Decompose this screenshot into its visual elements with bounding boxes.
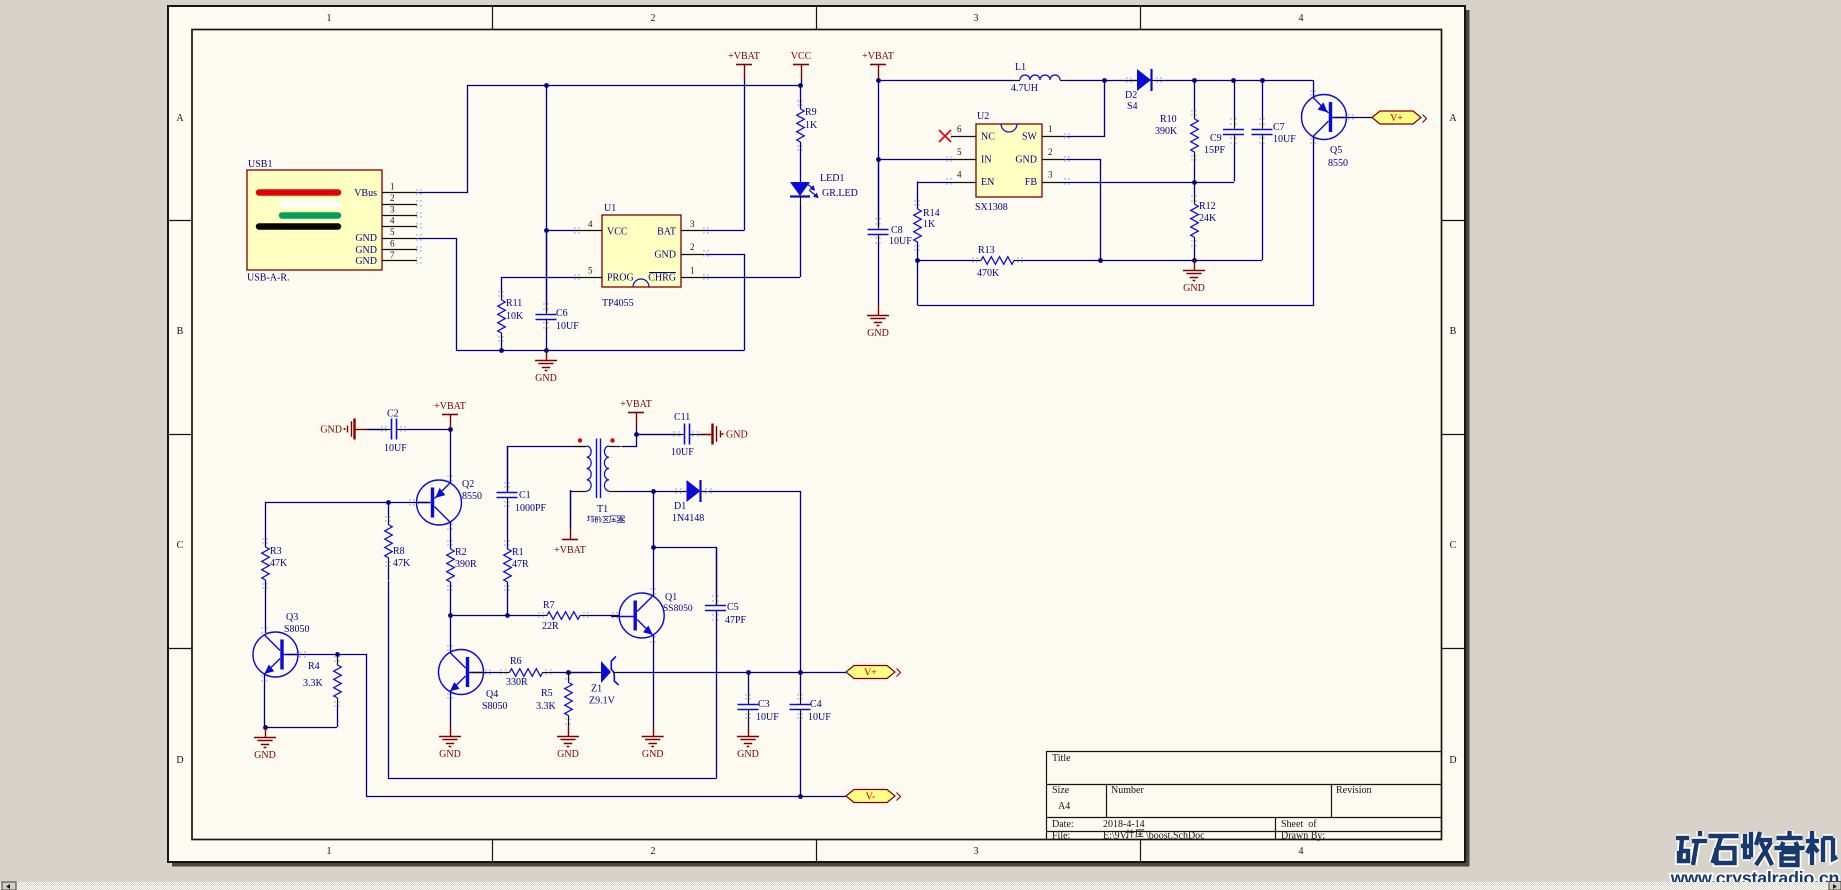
junction R13 left	[915, 258, 920, 263]
svg-text:10UF: 10UF	[889, 236, 912, 247]
junction Q3 base R4	[335, 652, 340, 657]
resistor R3	[265, 547, 267, 549]
svg-text:2: 2	[651, 846, 656, 857]
svg-text:390R: 390R	[455, 559, 477, 570]
svg-text:GND: GND	[1015, 155, 1037, 166]
svg-text:D: D	[1449, 755, 1456, 766]
wire Q1 emitter down to GND	[653, 635, 655, 726]
svg-text:Title: Title	[1052, 753, 1071, 764]
wire U1 GND pin2 to rail	[705, 255, 745, 351]
svg-text:3.3K: 3.3K	[536, 701, 557, 712]
junction C5 branch	[651, 545, 656, 550]
resistor R14	[917, 209, 919, 211]
svg-text:8550: 8550	[462, 491, 482, 502]
svg-text:2: 2	[1048, 147, 1053, 157]
svg-text:3: 3	[390, 205, 395, 215]
svg-text:U1: U1	[604, 203, 616, 214]
svg-text:B: B	[1450, 326, 1457, 337]
svg-text:LED1: LED1	[820, 173, 844, 184]
svg-text:+VBAT: +VBAT	[728, 51, 760, 62]
svg-text:V+: V+	[1390, 113, 1403, 124]
junction C4 top	[798, 670, 803, 675]
U1 pins right	[681, 230, 704, 232]
svg-text:6: 6	[390, 239, 395, 249]
zener diode Z1	[568, 672, 593, 674]
svg-text:5: 5	[588, 266, 593, 276]
wire branch to C5	[654, 548, 717, 606]
svg-text:R6: R6	[510, 656, 522, 667]
USB1 black wire bar	[259, 223, 338, 230]
junction R10 top	[1192, 78, 1197, 83]
wire R1 to R7 row	[507, 582, 509, 615]
transformer T1 core	[596, 439, 598, 499]
junction at 800,85	[798, 83, 803, 88]
svg-text:C7: C7	[1273, 122, 1285, 133]
svg-text:V-: V-	[866, 792, 876, 803]
wire R6 to Z1	[568, 672, 593, 674]
wire R14 to R13 junction	[917, 242, 919, 260]
svg-text:VCC: VCC	[607, 227, 628, 238]
schematic sheet	[168, 6, 1465, 862]
svg-text:R3: R3	[270, 546, 282, 557]
svg-text:+VBAT: +VBAT	[862, 51, 894, 62]
power +VBAT above Q2	[442, 414, 458, 416]
svg-text:2: 2	[651, 13, 656, 24]
resistor R4	[337, 655, 339, 657]
transistor Q2 8550	[417, 480, 462, 525]
connector USB1 body	[247, 170, 382, 270]
svg-text:S4: S4	[1127, 101, 1138, 112]
svg-text:47PF: 47PF	[725, 615, 747, 626]
wire FB row	[1065, 182, 1234, 184]
svg-text:Q5: Q5	[1330, 145, 1342, 156]
wire C1 top to transformer primary	[508, 447, 586, 493]
wire R7 to Q1 base	[611, 616, 619, 618]
svg-text:FB: FB	[1025, 177, 1038, 188]
svg-text:GR.LED: GR.LED	[822, 188, 858, 199]
svg-text:24K: 24K	[1199, 213, 1217, 224]
resistor R11	[501, 277, 503, 291]
svg-text:C1: C1	[519, 490, 531, 501]
svg-text:SW: SW	[1022, 132, 1038, 143]
svg-text:D2: D2	[1125, 90, 1137, 101]
wire primary bottom to +VBAT down	[571, 492, 575, 528]
svg-text:A: A	[176, 113, 184, 124]
svg-text:3: 3	[974, 13, 979, 24]
resistor R10	[1194, 80, 1196, 110]
capacitor C3	[748, 672, 750, 695]
svg-text:GND: GND	[642, 749, 664, 760]
svg-text:GND: GND	[439, 749, 461, 760]
svg-text:VBus: VBus	[354, 188, 377, 199]
svg-text:4: 4	[957, 170, 962, 180]
svg-text:IN: IN	[981, 155, 992, 166]
svg-text:1K: 1K	[923, 219, 936, 230]
svg-text:C11: C11	[674, 412, 690, 423]
svg-text:B: B	[177, 326, 184, 337]
resistor R7	[507, 615, 538, 617]
junction C3 top	[746, 670, 751, 675]
USB1 green wire bar	[282, 212, 338, 219]
wire Q3 emitter down	[264, 674, 266, 727]
svg-text:TP4055: TP4055	[602, 298, 634, 309]
svg-text:GND: GND	[254, 750, 276, 761]
resistor R9	[800, 109, 802, 111]
capacitor C6	[546, 231, 548, 305]
svg-text:C8: C8	[891, 225, 903, 236]
svg-text:S8050: S8050	[482, 701, 508, 712]
svg-text:Q4: Q4	[486, 689, 498, 700]
svg-text:Sheet of: Sheet of	[1281, 819, 1317, 830]
svg-text:R12: R12	[1199, 201, 1216, 212]
ground GND under C3	[748, 726, 750, 736]
junction FB node	[1192, 180, 1197, 185]
svg-text:C9: C9	[1210, 133, 1222, 144]
transistor Q5 8550	[1302, 95, 1347, 140]
svg-text:Number: Number	[1111, 785, 1144, 796]
IC U2 SX1308 body	[976, 124, 1042, 197]
svg-text:10UF: 10UF	[756, 712, 779, 723]
svg-text:R14: R14	[923, 208, 940, 219]
svg-text:1: 1	[327, 846, 332, 857]
svg-text:Size: Size	[1052, 785, 1070, 796]
wire V- rail	[366, 796, 846, 798]
svg-text:GND: GND	[355, 256, 377, 267]
power flag V+ bottom	[846, 666, 895, 679]
no-connect X on NC pin	[939, 130, 951, 142]
sheet inner border	[192, 30, 1442, 840]
wire BAT pin3 to +VBAT	[704, 230, 744, 232]
transformer T1 primary winding	[587, 446, 592, 491]
svg-text:C: C	[1450, 540, 1457, 551]
svg-text:+VBAT: +VBAT	[620, 399, 652, 410]
svg-text:4: 4	[588, 219, 593, 229]
wire to U1 VCC pin4	[546, 230, 579, 232]
wire Q2 collector to R2	[450, 522, 452, 549]
svg-text:10UF: 10UF	[556, 321, 579, 332]
svg-text:C2: C2	[387, 409, 399, 420]
wire Q4 emitter down to GND	[450, 692, 452, 727]
svg-text:2: 2	[690, 242, 695, 252]
junction Q2 base node	[386, 500, 391, 505]
capacitor C11	[636, 434, 675, 436]
svg-text:File:: File:	[1052, 831, 1070, 842]
wire base row down to R3	[265, 503, 267, 548]
svg-text:5: 5	[390, 227, 395, 237]
svg-text:Revision: Revision	[1336, 785, 1372, 796]
svg-text:GND: GND	[867, 328, 889, 339]
wire R9 to LED1	[800, 142, 802, 182]
svg-text:CHRG: CHRG	[648, 273, 676, 284]
junction R1 R7	[505, 613, 510, 618]
svg-text:47R: 47R	[512, 559, 529, 570]
svg-text:330R: 330R	[506, 677, 528, 688]
svg-text:Drawn By:: Drawn By:	[1281, 831, 1325, 842]
svg-text:Q3: Q3	[286, 612, 298, 623]
svg-text:GND: GND	[355, 245, 377, 256]
pin grid markers	[261, 77, 1354, 725]
junction R12 bottom	[1192, 258, 1197, 263]
wire R7 row left	[450, 615, 507, 617]
T1 polarity dot right	[610, 438, 614, 442]
svg-text:1N4148: 1N4148	[672, 513, 704, 524]
svg-text:47K: 47K	[270, 558, 288, 569]
capacitor C9	[1234, 80, 1236, 120]
svg-text:3: 3	[690, 219, 695, 229]
wire SW node to pin1	[1066, 81, 1105, 137]
wire junction right then down to V- rail	[338, 655, 367, 797]
transformer T1 secondary winding	[604, 446, 609, 491]
svg-text:GND: GND	[1183, 283, 1205, 294]
wire IN pin to +VBAT column	[878, 159, 951, 161]
svg-text:PROG: PROG	[607, 273, 634, 284]
T1 polarity dot left	[578, 438, 582, 442]
svg-text:4: 4	[390, 216, 395, 226]
junction R5 node	[566, 670, 571, 675]
svg-text:10K: 10K	[506, 311, 524, 322]
transistor Q1 SS8050	[619, 593, 664, 638]
USB1 white wire bar	[282, 201, 338, 208]
svg-text:1: 1	[390, 182, 395, 192]
svg-text:GND: GND	[654, 250, 676, 261]
wire V+ output row	[619, 672, 846, 674]
wire Q4 collector up to R7 row	[450, 615, 452, 652]
svg-text:R13: R13	[978, 245, 995, 256]
svg-text:3: 3	[974, 846, 979, 857]
svg-text:A4: A4	[1058, 801, 1070, 812]
resistor R13	[917, 260, 972, 262]
junction C11 node	[634, 432, 639, 437]
wire R13 row to C7 column	[1098, 260, 1262, 262]
svg-text:R4: R4	[308, 661, 320, 672]
wire EN column to loop bottom	[917, 260, 919, 305]
U1 pins left	[579, 230, 602, 232]
label T1 chinese toroid transformer	[587, 516, 594, 523]
svg-text:R10: R10	[1160, 114, 1177, 125]
wire ground rail y350	[456, 350, 744, 352]
wire C11 row	[636, 434, 681, 436]
Q5 base wire to V+ flag	[1335, 117, 1372, 119]
watermark logo kuang shi shou yin ji	[1676, 831, 1707, 865]
power +VBAT below transformer	[562, 539, 578, 541]
zone dividers right	[1442, 220, 1466, 222]
svg-text:R9: R9	[805, 107, 817, 118]
resistor R8	[388, 503, 390, 516]
svg-text:EN: EN	[981, 177, 994, 188]
IC U1 TP4055 body	[602, 215, 681, 287]
svg-text:4.7UH: 4.7UH	[1011, 83, 1038, 94]
svg-text:10UF: 10UF	[1273, 134, 1296, 145]
resistor R5	[568, 672, 570, 674]
wire USB pin1 to VCC rail	[418, 86, 801, 193]
svg-text:BAT: BAT	[657, 227, 676, 238]
capacitor C7	[1262, 80, 1264, 120]
junction Q3 emitter gnd	[263, 725, 268, 730]
svg-text:\boost.SchDoc: \boost.SchDoc	[1146, 831, 1205, 842]
junction at 546,85	[544, 83, 549, 88]
svg-text:10UF: 10UF	[671, 447, 694, 458]
wire D2 to Q5	[1158, 80, 1313, 82]
svg-text:GND: GND	[320, 425, 342, 436]
wire boost input rail	[878, 80, 1013, 82]
svg-text:8550: 8550	[1328, 158, 1348, 169]
svg-text:1: 1	[690, 266, 695, 276]
svg-text:7: 7	[390, 250, 395, 260]
svg-text:SX1308: SX1308	[975, 202, 1008, 213]
junction +VBAT rail	[876, 78, 881, 83]
svg-text:+VBAT: +VBAT	[434, 401, 466, 412]
svg-text:R7: R7	[543, 600, 555, 611]
wire +VBAT column to C8	[878, 80, 880, 227]
wire Q3 base to R4 junction	[287, 654, 338, 656]
ground GND under Q4	[450, 726, 452, 736]
scrollbar left button	[2, 882, 16, 890]
svg-text:GND: GND	[535, 373, 557, 384]
svg-text:R2: R2	[455, 547, 467, 558]
junction C7 top	[1260, 78, 1265, 83]
junction C9 top	[1231, 78, 1236, 83]
wire +VBAT junction down to Q2 emitter	[450, 429, 452, 483]
wire EN column	[917, 182, 919, 210]
svg-text:C5: C5	[727, 602, 739, 613]
ground GND under R12	[1194, 260, 1196, 270]
ground GND under Q1	[653, 726, 655, 736]
svg-text:GND: GND	[557, 749, 579, 760]
svg-text:4: 4	[1299, 13, 1304, 24]
junction D1 branch	[651, 489, 656, 494]
wire U2 GND pin2 down	[1066, 160, 1101, 261]
U2 pins right	[1042, 136, 1065, 138]
capacitor C1	[507, 446, 509, 483]
wire secondary top to +VBAT column	[622, 435, 637, 447]
svg-text:47K: 47K	[393, 558, 411, 569]
power +VBAT above C11 row	[628, 412, 644, 414]
junction C6 bottom	[544, 348, 549, 353]
svg-text:SS8050: SS8050	[663, 604, 693, 614]
power VCC	[793, 64, 809, 66]
svg-text:2018-4-14: 2018-4-14	[1103, 819, 1145, 830]
svg-text:390K: 390K	[1155, 126, 1178, 137]
resistor R2	[450, 549, 452, 551]
svg-text:2: 2	[390, 193, 395, 203]
wire D1 to output column	[708, 492, 801, 673]
power +VBAT top left	[736, 64, 752, 66]
wire R8 down to feedback rail	[389, 581, 717, 779]
junction R11 bottom	[499, 348, 504, 353]
zone dividers bottom	[492, 840, 494, 863]
svg-text:1K: 1K	[805, 120, 818, 131]
svg-text:C4: C4	[810, 699, 822, 710]
diode D2	[1130, 80, 1137, 82]
svg-text:GND: GND	[726, 430, 748, 441]
U2 pins left	[951, 136, 976, 138]
svg-text:S8050: S8050	[284, 624, 310, 635]
ground GND under C8	[878, 305, 880, 315]
svg-text:V+: V+	[864, 668, 877, 679]
svg-text:USB1: USB1	[248, 159, 272, 170]
wire rail to Q5 emitter	[1313, 80, 1315, 98]
svg-text:USB-A-R.: USB-A-R.	[247, 273, 290, 284]
wire VCC junction down to R9	[800, 85, 802, 109]
svg-text:1: 1	[327, 13, 332, 24]
svg-text:1000PF: 1000PF	[515, 503, 547, 514]
power flag V- bottom	[846, 790, 895, 803]
junction C2 +VBAT Q2	[448, 427, 453, 432]
wire U1 CHRG pin1 to LED	[704, 277, 800, 279]
svg-text:+VBAT: +VBAT	[554, 545, 586, 556]
svg-text:1: 1	[1048, 124, 1053, 134]
junction R2 R7 Q4	[448, 613, 453, 618]
svg-text:5: 5	[957, 147, 962, 157]
Q5 collector loop to EN column	[918, 137, 1314, 306]
svg-text:22R: 22R	[542, 621, 559, 632]
ground GND under R5	[568, 726, 570, 736]
svg-text:GND: GND	[737, 749, 759, 760]
wire D1 branch down to Q1 collector	[653, 491, 655, 596]
svg-text:10UF: 10UF	[384, 443, 407, 454]
svg-text:3.3K: 3.3K	[303, 678, 324, 689]
junction IN node	[876, 157, 881, 162]
wire C5 bottom column	[716, 611, 718, 779]
wire R2 to R7 row	[450, 582, 452, 615]
svg-text:470K: 470K	[977, 268, 1000, 279]
svg-text:R8: R8	[393, 546, 405, 557]
svg-text:NC: NC	[981, 132, 995, 143]
title block frame	[1046, 751, 1442, 753]
sheet shadow	[1465, 10, 1470, 866]
scrollbar right button	[1829, 882, 1841, 890]
wire secondary bottom to D1	[621, 491, 680, 493]
wire Q2 base row	[265, 502, 428, 504]
wire USB pin5 GND down	[418, 239, 457, 351]
zone dividers left	[168, 220, 192, 222]
diode D1	[680, 491, 687, 493]
capacitor C2	[366, 429, 382, 431]
wire PROG row	[501, 277, 579, 279]
svg-text:R11: R11	[506, 298, 522, 309]
power +VBAT boost	[870, 64, 886, 66]
svg-text:L1: L1	[1015, 62, 1026, 73]
svg-text:Z9.1V: Z9.1V	[589, 696, 616, 707]
svg-text:Q1: Q1	[665, 592, 677, 603]
wire L1 to D2	[1066, 80, 1137, 82]
wire R3 to Q3 collector	[265, 580, 267, 633]
transistor Q3 S8050	[253, 632, 298, 677]
svg-text:Q2: Q2	[462, 479, 474, 490]
resistor R6	[484, 672, 501, 674]
capacitor C4	[800, 672, 802, 695]
svg-text:D1: D1	[674, 501, 686, 512]
svg-text:3: 3	[1048, 170, 1053, 180]
svg-text:Z1: Z1	[591, 684, 602, 695]
junction GND2 node	[1098, 258, 1103, 263]
USB1 pins	[382, 192, 417, 194]
svg-text:A: A	[1449, 113, 1457, 124]
svg-text:4: 4	[1299, 846, 1304, 857]
junction U1 VCC pin row	[544, 228, 549, 233]
ground GND under Q3	[265, 727, 267, 737]
svg-text:E:\9V: E:\9V	[1103, 831, 1128, 842]
svg-text:C: C	[177, 540, 184, 551]
resistor R12	[1194, 182, 1196, 196]
svg-text:GND: GND	[355, 233, 377, 244]
LED LED1	[800, 182, 802, 184]
svg-text:10UF: 10UF	[808, 712, 831, 723]
capacitor C5	[716, 547, 718, 596]
svg-text:C6: C6	[556, 308, 568, 319]
svg-text:VCC: VCC	[791, 51, 812, 62]
resistor R1	[507, 549, 509, 551]
